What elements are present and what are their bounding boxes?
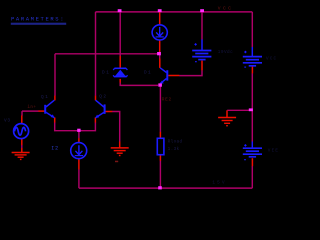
ground 0 lower (Q2 base) [111, 148, 129, 156]
wire mid ground to right column [227, 109, 251, 111]
svg-text:Q2: Q2 [99, 94, 107, 99]
svg-text:D1: D1 [102, 70, 110, 75]
pin Q2 emitter (red) [94, 117, 96, 122]
ground 0 mid right [218, 118, 236, 126]
wire right end of rail down to battery V1 [251, 12, 253, 47]
wire diode column upper segment [119, 12, 121, 56]
wire emitter node down to resistor [159, 85, 161, 132]
transistor Q1 [45, 100, 54, 118]
pin diode anode (red) [119, 79, 121, 83]
pin Q2 collector (red) [95, 96, 97, 101]
current source I2 [71, 143, 87, 159]
pin Q1 collector (red) [54, 96, 56, 101]
pin VSIN bottom (red) [21, 138, 23, 145]
pin mid ground stub (red) [226, 110, 228, 117]
junction dot emitter node of Q-mid [158, 83, 162, 86]
battery V3 (offset source, middle) [192, 39, 211, 61]
junction dot bottom rail / resistor [158, 186, 162, 189]
pin Q-mid emitter (red) [159, 83, 161, 85]
wire I1 output below junction [159, 54, 161, 59]
stray red tick near I2 [115, 161, 118, 163]
svg-text:I2: I2 [51, 146, 59, 152]
pin resistor bottom (red) [159, 155, 161, 161]
pin I2 top (red) [78, 138, 80, 143]
svg-text:VCC: VCC [266, 56, 277, 61]
pin I2 bottom (red) [78, 158, 80, 169]
source VSIN V3 [14, 124, 29, 139]
transistor Q2 [95, 100, 104, 118]
wire battery V3 minus to Q-mid base [179, 70, 202, 75]
wire right column V1 minus to V2 plus [251, 73, 253, 142]
wire V2 bottom to bottom rail [251, 166, 253, 188]
wire left end of rail down to Q2 collector [95, 12, 97, 96]
junction dot top rail / V3 [200, 9, 204, 12]
wire emitter rail of diff pair [55, 122, 96, 130]
pin Q1 emitter (red) [54, 117, 56, 122]
svg-text:D1: D1 [144, 71, 152, 76]
svg-text:Q1: Q1 [41, 95, 49, 100]
svg-text:VEE: VEE [268, 148, 279, 153]
pin lower ground stub (red) [119, 142, 121, 148]
pin resistor top (red) [159, 132, 161, 139]
pin battery V3 minus (red) [201, 61, 203, 71]
wire emitter junction to I2 [78, 131, 80, 139]
underline of PARAMETERS [11, 23, 66, 25]
wire node-A horizontal Q1 collector to I1 [55, 53, 159, 55]
wire VSIN to Q1 base [22, 110, 39, 112]
svg-text:RE2: RE2 [162, 98, 172, 103]
ground 0 left (under VSIN) [12, 153, 30, 160]
pin Q2 base (red) [104, 111, 112, 113]
pin Q1 base (red) [38, 110, 44, 112]
wire battery V3 top lead [201, 12, 203, 40]
pin left ground stub (red) [21, 148, 23, 152]
svg-text:VCC: VCC [218, 5, 233, 11]
wire bottom rail [79, 187, 252, 189]
wire VCC top rail [96, 11, 253, 13]
pin Q-mid base (red) [168, 75, 179, 77]
battery V1 (VCC supply) [243, 47, 262, 67]
svg-text:Rload: Rload [168, 140, 183, 145]
current source I1 [152, 25, 167, 40]
pin diode cathode (red) [119, 56, 121, 68]
wire VSIN bottom gap [21, 145, 23, 148]
junction dot node A [157, 52, 161, 55]
junction dot mid ground / right column [249, 108, 253, 111]
svg-text:1.3k: 1.3k [168, 147, 180, 152]
resistor Rload [157, 138, 164, 154]
wire resistor bottom to ground rail [159, 161, 161, 189]
battery V2 (VEE supply) [243, 142, 262, 160]
junction dot top rail / I1 [158, 9, 162, 12]
svg-text:15V: 15V [212, 181, 226, 186]
wire VSIN top corner [21, 111, 23, 116]
wire Q2 base to lower ground [112, 112, 120, 142]
wire diode anode to emitter node [120, 82, 158, 85]
svg-text:10Vdc: 10Vdc [218, 50, 233, 55]
pin I1 bottom (red) [159, 40, 161, 54]
wire I2 bottom to bottom rail [78, 169, 80, 188]
pin Q-mid collector (red) [159, 59, 161, 68]
pin I1 top (red) [159, 12, 161, 25]
pin battery V1 minus (red) [251, 66, 253, 73]
svg-text:PARAMETERS:: PARAMETERS: [11, 15, 65, 22]
junction dot top rail / diode [118, 9, 122, 12]
svg-text:in+: in+ [27, 105, 36, 110]
pin battery V2 minus (red) [251, 158, 253, 166]
junction dot diff-pair emitters [77, 129, 80, 132]
wire Q1 collector vertical [54, 54, 56, 96]
zener diode D1 [113, 68, 127, 76]
transistor Q-mid [160, 68, 168, 84]
pin VSIN top (red) [21, 115, 23, 123]
svg-text:V3: V3 [4, 119, 11, 124]
